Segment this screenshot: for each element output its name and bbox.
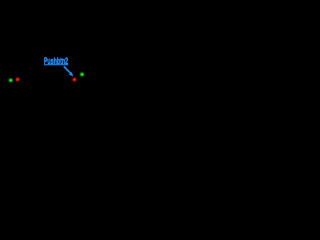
arrow shaft [64, 66, 71, 73]
LED red left [14, 76, 21, 83]
arrow head [69, 72, 73, 76]
LED red right [71, 76, 78, 83]
LED green right [79, 71, 85, 77]
LED green left [8, 77, 14, 83]
background [0, 0, 90, 90]
label underline [44, 64, 68, 66]
